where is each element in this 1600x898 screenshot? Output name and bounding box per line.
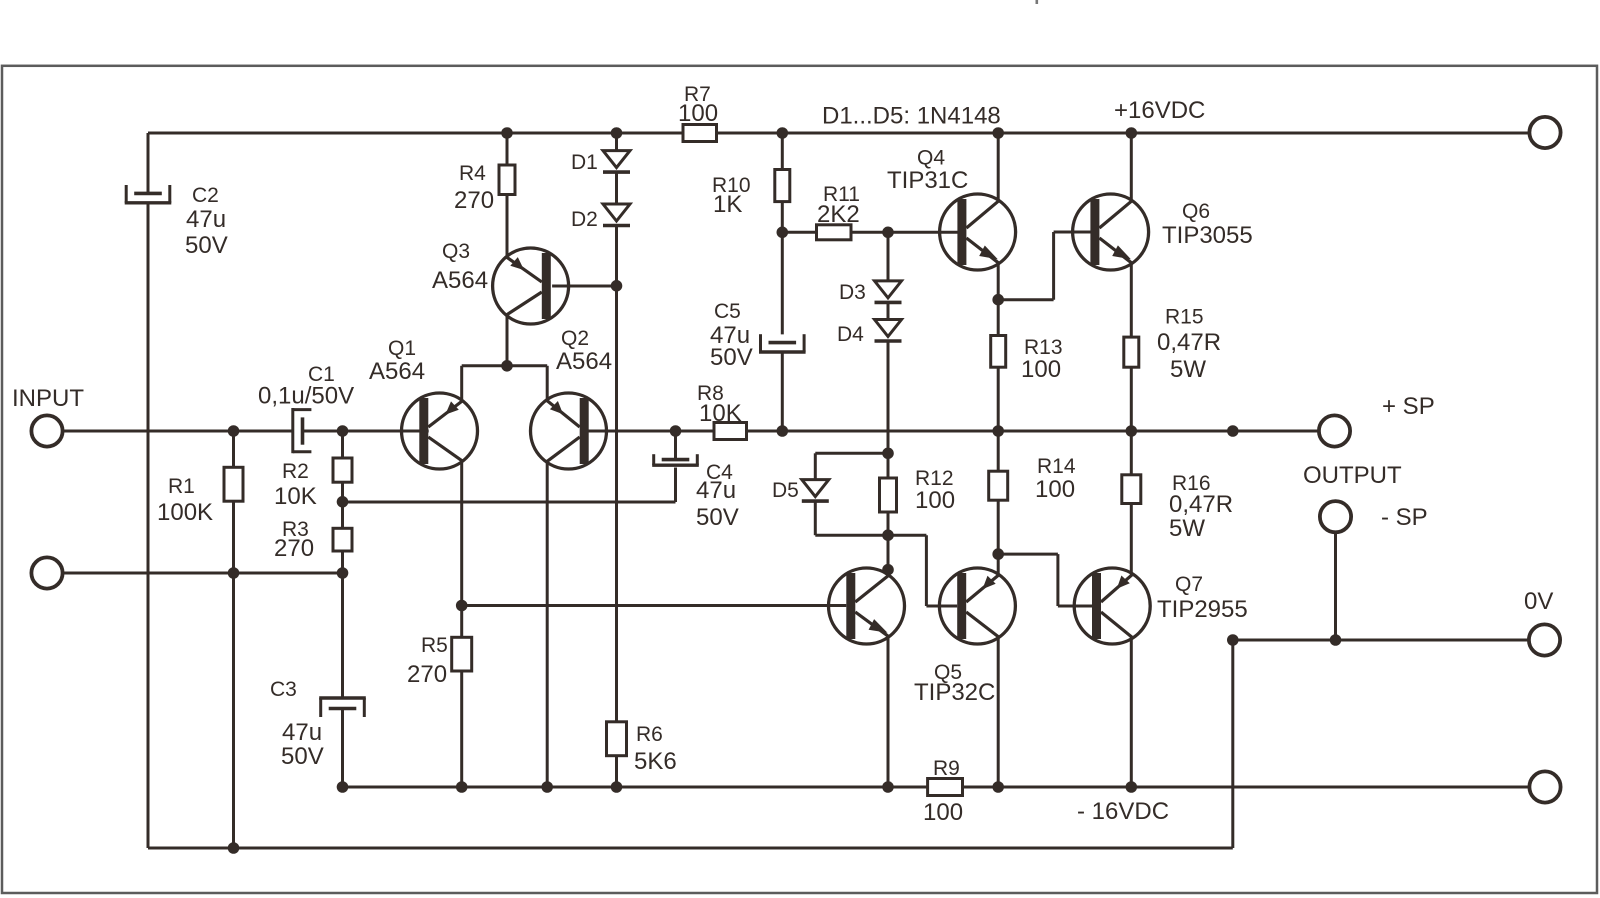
wire lower input line	[62, 572, 342, 575]
terminal INPUT minus	[31, 557, 62, 588]
svg-text:100: 100	[1035, 476, 1075, 503]
junction Q2 collector -16VDC rail	[541, 781, 553, 793]
wire Q5 emitter lead	[997, 554, 1000, 574]
svg-text:A564: A564	[556, 348, 612, 375]
diode D1	[603, 151, 630, 173]
svg-text:47u: 47u	[282, 719, 322, 746]
junction rail R4	[501, 127, 513, 139]
wire R4 top lead from rail	[506, 133, 509, 165]
wire D2 to Q3 base node	[615, 226, 618, 286]
wire Q4 emitter lead	[997, 264, 1000, 300]
resistor R5	[452, 637, 472, 671]
svg-text:D5: D5	[772, 479, 799, 502]
resistor R9	[928, 779, 963, 796]
wire R6 bottom lead	[615, 756, 618, 787]
svg-text:D2: D2	[571, 208, 598, 231]
wire Q5 collector lead to -16VDC rail	[997, 638, 1000, 788]
wire C4 top lead	[674, 431, 677, 458]
svg-text:50V: 50V	[281, 743, 324, 770]
wire Q4 emitter node to R13	[997, 300, 1000, 336]
resistor R2	[333, 458, 352, 482]
svg-text:TIP2955: TIP2955	[1157, 596, 1248, 623]
wire Q5 base stair vertical	[925, 535, 928, 606]
svg-text:10K: 10K	[274, 483, 317, 510]
wire driver emitter lead to -16VDC rail	[887, 637, 890, 787]
transistor Q4	[940, 194, 1016, 270]
junction rail R10	[777, 127, 789, 139]
wire -SP terminal drop to 0V line	[1334, 532, 1337, 640]
wire R11 left lead	[782, 231, 816, 234]
wire feedback node R2 R3 junction to C4 bottom	[343, 501, 676, 504]
terminal +16VDC	[1529, 117, 1560, 148]
diode D5	[802, 480, 829, 502]
wire D5 R12 top	[815, 452, 888, 455]
wire R11 right lead to Q4 base	[851, 231, 958, 234]
svg-text:Q2: Q2	[561, 327, 589, 350]
wire Q1 collector vertical to R5	[460, 462, 463, 638]
svg-text:0,1u/50V: 0,1u/50V	[258, 383, 354, 410]
svg-text:R6: R6	[636, 723, 663, 746]
svg-text:A564: A564	[432, 267, 488, 294]
wire C2 top lead from rail	[147, 133, 150, 193]
resistor R3	[333, 528, 352, 551]
wire C3 bottom lead to -16VDC rail	[341, 709, 344, 788]
wire 0V corner vertical to bottom return	[1231, 640, 1234, 848]
junction Q2 base C4 R8	[670, 425, 682, 437]
resistor R16	[1122, 475, 1141, 504]
svg-text:50V: 50V	[185, 232, 228, 259]
wire Q1 collector node to driver base	[462, 604, 847, 607]
wire R2 R3 link	[341, 482, 344, 528]
svg-text:C5: C5	[714, 300, 741, 323]
wire Q5 emitter to Q7 base stair horizontal	[998, 553, 1058, 556]
resistor R6	[607, 722, 627, 756]
wire Q2 collector vertical to -16VDC rail	[546, 462, 549, 788]
svg-text:100: 100	[678, 100, 718, 127]
terminal -16VDC	[1529, 771, 1560, 802]
wire D5 top lead	[814, 453, 817, 479]
svg-text:R15: R15	[1165, 306, 1204, 329]
transistor Q5 driver unlabeled	[829, 568, 905, 644]
svg-text:5W: 5W	[1170, 356, 1206, 383]
wire lower input line down to C3	[341, 573, 344, 698]
svg-text:0V: 0V	[1524, 588, 1553, 615]
svg-text:Q3: Q3	[442, 240, 470, 263]
terminal +SP	[1319, 415, 1350, 446]
capacitor C5	[759, 334, 806, 352]
junction R12 D5 bottom	[882, 529, 894, 541]
svg-text:TIP31C: TIP31C	[887, 167, 968, 194]
svg-text:10K: 10K	[699, 400, 742, 427]
resistor R1	[224, 467, 243, 501]
resistor R14	[989, 471, 1008, 500]
wire D3 to D4	[887, 302, 890, 319]
junction C1 R2	[337, 425, 349, 437]
wire Q2 base to R8	[584, 430, 714, 433]
svg-text:100K: 100K	[157, 499, 213, 526]
wire R10 top lead from rail	[781, 133, 784, 170]
junction rail Q6 collector	[1126, 127, 1138, 139]
junction input R1	[228, 425, 240, 437]
wire R14 top from output line	[997, 431, 1000, 471]
diode D3	[875, 281, 902, 303]
svg-text:C3: C3	[270, 678, 297, 701]
wire Q1 emitter vertical	[460, 366, 463, 401]
svg-text:- SP: - SP	[1381, 504, 1428, 531]
svg-text:INPUT: INPUT	[12, 385, 84, 412]
svg-text:+ SP: + SP	[1382, 393, 1435, 420]
resistor R15	[1124, 337, 1139, 367]
capacitor C4	[652, 454, 699, 465]
wire bottom return line	[148, 847, 1233, 850]
wire +16VDC rail left segment	[148, 132, 683, 135]
wire C2 bottom lead down to bottom return	[147, 203, 150, 848]
resistor R4	[499, 165, 515, 195]
junction R11 D3	[882, 227, 894, 239]
wire R1 bottom lead down to bottom return	[232, 501, 235, 848]
wire output node line R8 to +SP terminal	[747, 430, 1320, 433]
svg-text:D1: D1	[571, 151, 598, 174]
wire Q6 emitter to R15	[1130, 264, 1133, 337]
svg-text:R4: R4	[459, 162, 486, 185]
wire Q6 collector to rail	[1130, 133, 1133, 200]
svg-text:D1...D5: 1N4148: D1...D5: 1N4148	[822, 103, 1001, 130]
wire D4 down across output line to R12 top	[887, 341, 890, 478]
junction -SP drop on 0V line	[1330, 634, 1342, 646]
junction R6 -16VDC rail	[611, 781, 623, 793]
junction C3 -16VDC rail	[337, 781, 349, 793]
wire Q5 base stair horizontal	[926, 605, 957, 608]
wire 0V line	[1233, 639, 1529, 642]
resistor R7	[683, 125, 717, 142]
svg-text:- 16VDC: - 16VDC	[1077, 798, 1169, 825]
junction Q5 collector R9	[992, 781, 1004, 793]
junction Q1 Q2 emitters Q3 collector	[501, 360, 513, 372]
svg-text:270: 270	[274, 535, 314, 562]
svg-text:0,47R: 0,47R	[1169, 491, 1233, 518]
svg-text:2K2: 2K2	[817, 201, 860, 228]
svg-text:100: 100	[1021, 356, 1061, 383]
transistor Q7	[1074, 568, 1150, 644]
junction driver emitter R9	[882, 781, 894, 793]
resistor R10	[775, 170, 790, 202]
junction lower input R1	[228, 567, 240, 579]
wire Q7 base	[1058, 605, 1092, 608]
wire Q7 collector to -16VDC rail	[1130, 638, 1133, 788]
junction output R15 R16	[1126, 425, 1138, 437]
junction R2 R3 feedback	[337, 496, 349, 508]
terminal OUTPUT -SP	[1320, 501, 1351, 532]
wire R14 bottom to Q5 emitter node	[997, 500, 1000, 554]
wire -16VDC rail left of R9	[343, 786, 928, 789]
svg-text:270: 270	[454, 187, 494, 214]
svg-text:50V: 50V	[710, 344, 753, 371]
junction bottom return R1 column	[228, 842, 240, 854]
svg-text:R5: R5	[421, 634, 448, 657]
wire C5 bottom lead to output line	[781, 352, 784, 431]
capacitor C1	[293, 408, 312, 453]
junction Q5 emitter stair	[992, 548, 1004, 560]
wire driver collector lead	[887, 535, 890, 571]
transistor Q1	[402, 393, 478, 469]
diode D2	[603, 204, 630, 226]
resistor R13	[991, 336, 1006, 368]
svg-text:Q1: Q1	[388, 337, 416, 360]
wire R12 bottom	[887, 512, 890, 535]
wire R15 bottom to output line	[1130, 367, 1133, 431]
wire rail to D1	[615, 133, 618, 151]
wire R2 top lead	[341, 431, 344, 458]
junction output node right	[1227, 425, 1239, 437]
wire Q1 Q2 emitter tie bar	[462, 364, 548, 367]
svg-text:5K6: 5K6	[634, 748, 677, 775]
terminal INPUT plus	[31, 415, 62, 446]
capacitor C3	[319, 698, 366, 717]
wire Q6 base	[1054, 231, 1091, 234]
wire C1 plate to Q1 base	[304, 430, 429, 433]
svg-text:47u: 47u	[696, 477, 736, 504]
junction rail Q4 collector	[992, 127, 1004, 139]
svg-text:TIP32C: TIP32C	[914, 679, 995, 706]
terminal 0V	[1529, 624, 1560, 655]
svg-text:0,47R: 0,47R	[1157, 329, 1221, 356]
wire Q4 emitter to Q6 base stair horizontal	[998, 298, 1053, 301]
resistor R12	[880, 478, 897, 512]
junction output R13 R14	[992, 425, 1004, 437]
junction Q4 emitter stair	[992, 294, 1004, 306]
wire R3 bottom lead to lower input line	[341, 551, 344, 573]
svg-text:100: 100	[915, 487, 955, 514]
resistor R11	[817, 225, 852, 240]
wire R1 top lead	[232, 431, 235, 467]
wire R5 bottom lead	[460, 671, 463, 787]
wire Q5 Q7 stair vertical	[1056, 554, 1059, 606]
wire R10 bottom lead to R11 node	[781, 202, 784, 335]
wire -16VDC rail right of R9	[963, 786, 1531, 789]
wire Q2 emitter vertical	[546, 366, 549, 401]
svg-text:R14: R14	[1037, 455, 1076, 478]
svg-text:C2: C2	[192, 184, 219, 207]
diode D4	[875, 320, 902, 342]
svg-text:R1: R1	[168, 475, 195, 498]
wire R13 bottom to output line	[997, 367, 1000, 431]
wire Q4 Q6 stair vertical	[1052, 232, 1055, 300]
junction lower input R3	[337, 567, 349, 579]
svg-text:5W: 5W	[1169, 515, 1205, 542]
wire Q3 base node down to R6	[615, 286, 618, 722]
wire R4 bottom lead to Q3 emitter	[506, 195, 509, 257]
junction driver collector	[882, 564, 894, 576]
svg-text:1K: 1K	[713, 191, 742, 218]
junction Q1 collector driver base R5	[456, 600, 468, 612]
wire D5 bottom lead	[814, 501, 817, 535]
svg-text:D3: D3	[839, 281, 866, 304]
junction R10 R11 C5	[777, 227, 789, 239]
wire R16 bottom to Q7 emitter	[1130, 504, 1133, 575]
svg-text:100: 100	[923, 799, 963, 826]
capacitor C2	[125, 185, 172, 203]
wire Q3 base lead	[552, 285, 616, 288]
resistor R8	[714, 423, 747, 440]
svg-text:TIP3055: TIP3055	[1162, 222, 1253, 249]
wire input line from INPUT terminal to C1	[62, 430, 293, 433]
transistor Q6	[1073, 194, 1149, 270]
junction R5 -16VDC rail	[456, 781, 468, 793]
wire +16VDC rail right segment	[717, 132, 1531, 135]
svg-text:OUTPUT: OUTPUT	[1303, 462, 1402, 489]
svg-text:A564: A564	[369, 358, 425, 385]
junction 0V corner	[1227, 634, 1239, 646]
transistor Q2	[531, 393, 607, 469]
svg-text:50V: 50V	[696, 504, 739, 531]
svg-text:R2: R2	[282, 460, 309, 483]
transistor Q3	[493, 248, 569, 324]
svg-text:+16VDC: +16VDC	[1114, 97, 1205, 124]
svg-text:D4: D4	[837, 323, 864, 346]
junction rail D1	[611, 127, 623, 139]
wire Q4 collector to rail	[997, 133, 1000, 200]
transistor Q5	[939, 568, 1015, 644]
wire D5 R12 bottom to Q5 base stair	[815, 534, 926, 537]
junction Q7 collector -16VDC rail	[1126, 781, 1138, 793]
wire D1 to D2	[615, 172, 618, 204]
svg-text:47u: 47u	[186, 206, 226, 233]
junction Q3 base D2	[611, 280, 623, 292]
wire C4 bottom lead	[674, 468, 677, 503]
svg-text:R9: R9	[933, 757, 960, 780]
junction R8 C5 output	[777, 425, 789, 437]
svg-text:Q7: Q7	[1175, 573, 1203, 596]
wire R16 top from output line	[1130, 431, 1133, 475]
junction D4 R12 D5 top	[882, 448, 894, 460]
svg-text:270: 270	[407, 661, 447, 688]
stray tick mark top	[1036, 0, 1039, 4]
wire R11 node down to D3	[887, 232, 890, 281]
svg-text:Q6: Q6	[1182, 200, 1210, 223]
wire Q3 collector vertical to emitter tie	[506, 316, 509, 366]
